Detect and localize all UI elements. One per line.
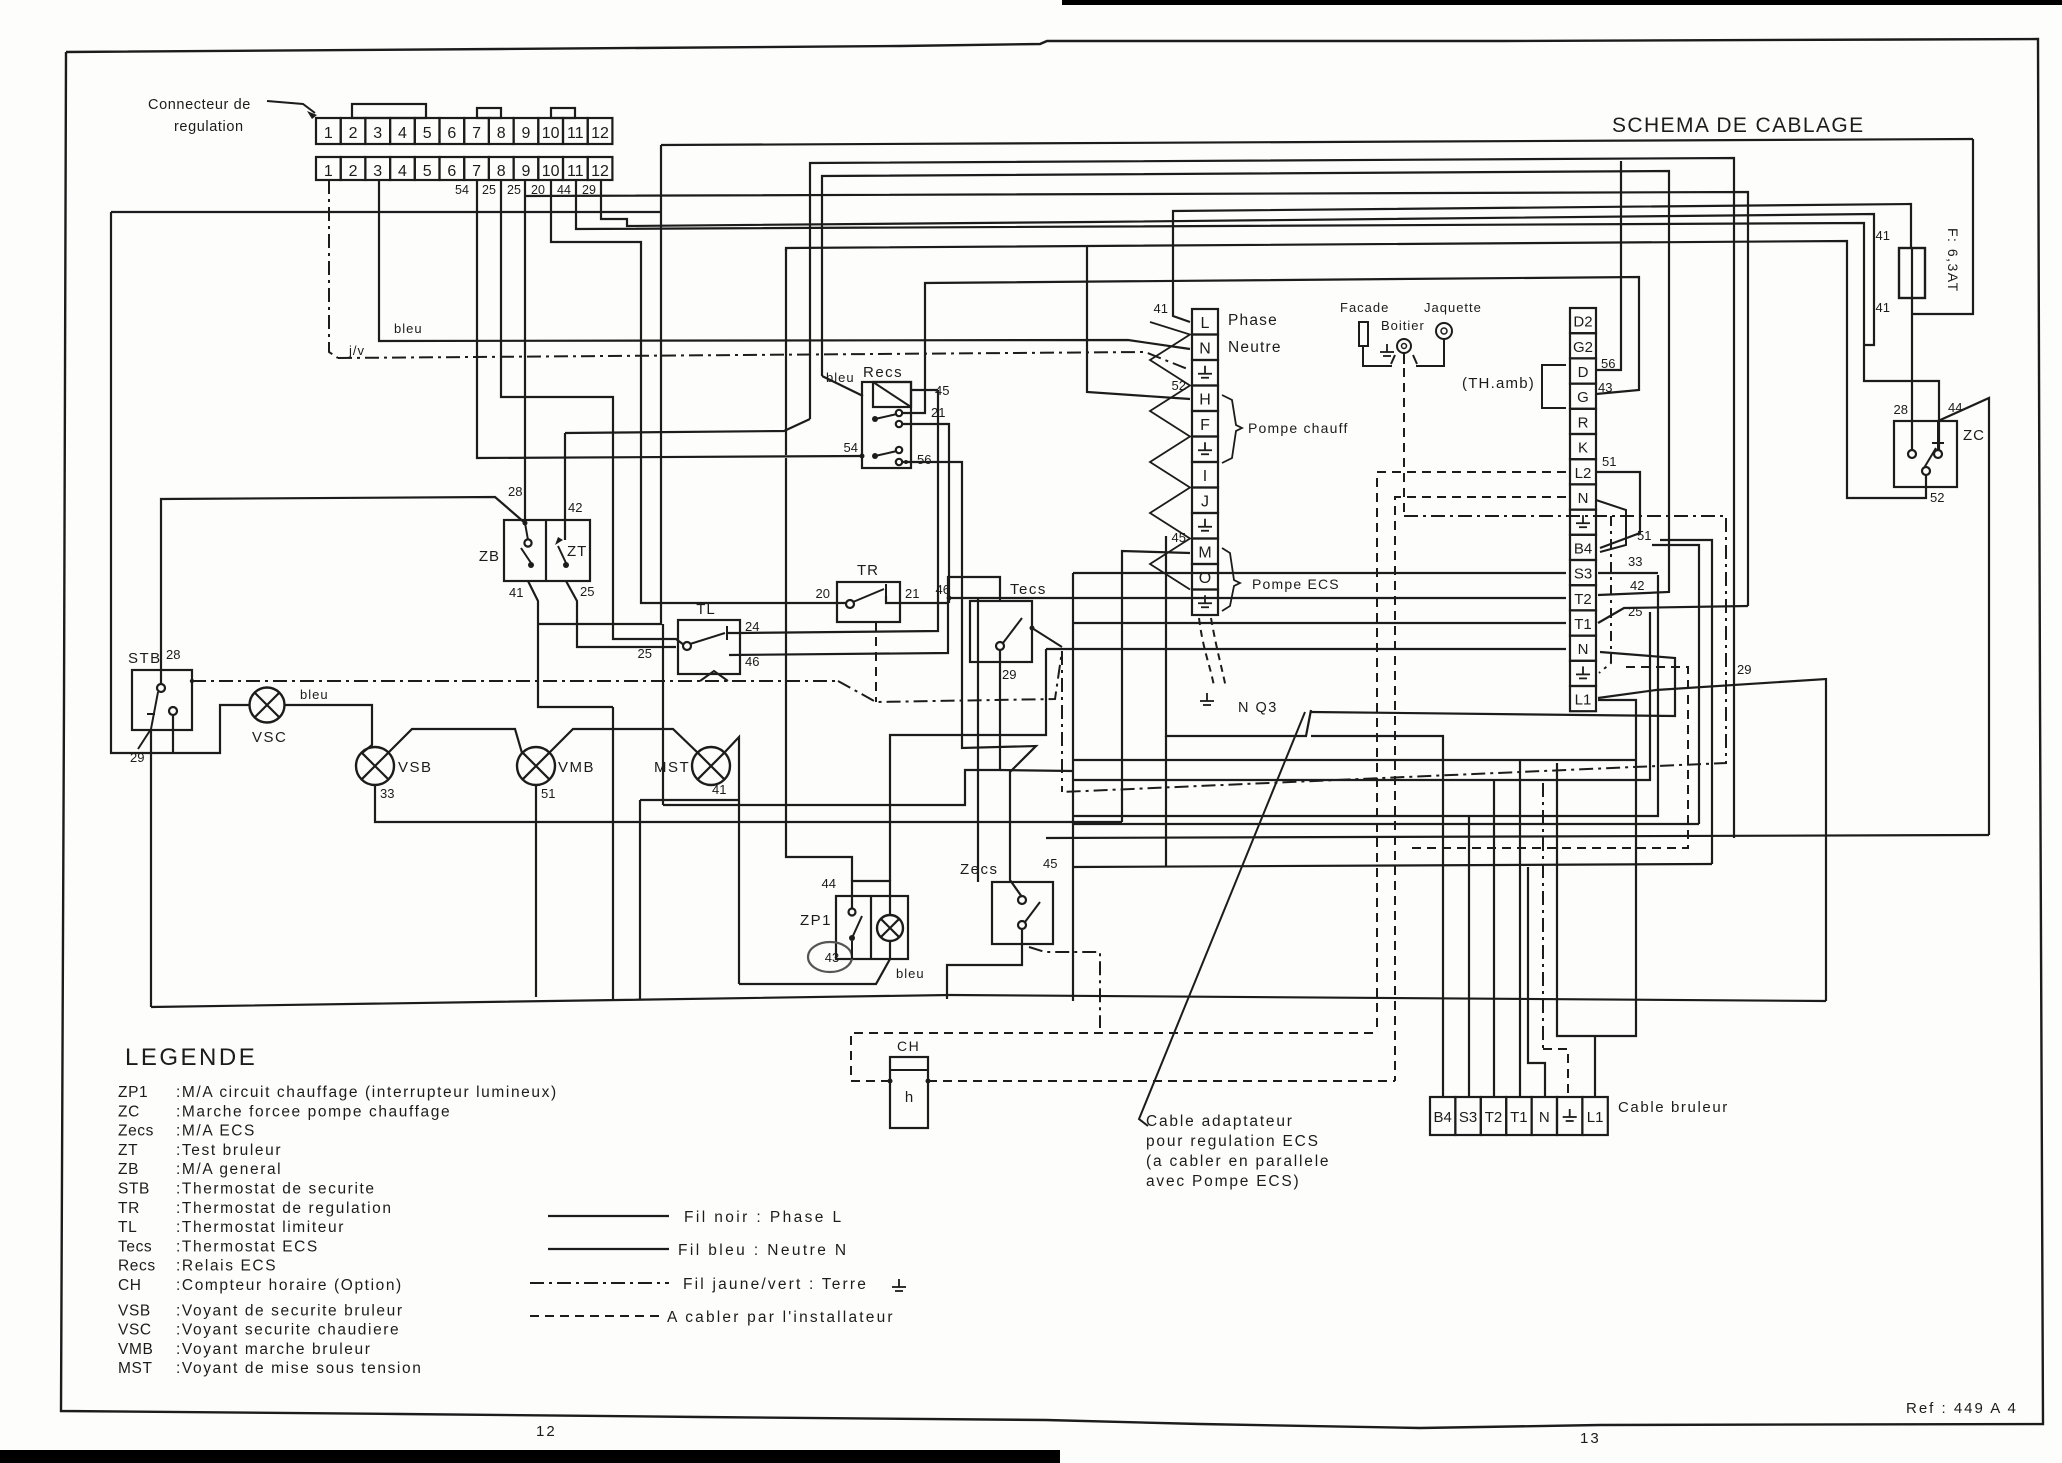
svg-text:j/v: j/v (348, 343, 365, 358)
wire Tecs 29 branch to spine (1000, 770, 1073, 771)
svg-text:T1: T1 (1510, 1109, 1528, 1126)
facade terminal (1359, 322, 1368, 346)
wire T2 long (949, 597, 1566, 599)
svg-text:bleu: bleu (896, 966, 925, 981)
svg-text:M: M (1198, 544, 1211, 561)
wire ZP1 bleu down (739, 941, 890, 984)
lamp VSB (356, 747, 394, 785)
wire Tecs 29 down (663, 650, 1000, 805)
wire bottom bus (151, 995, 1826, 1007)
thermostat Tecs box (970, 601, 1032, 662)
connector cable bruleur (1430, 1097, 1455, 1135)
svg-text:L1: L1 (1587, 1109, 1604, 1126)
leader cable adaptateur (1139, 712, 1305, 1126)
svg-text:N: N (1539, 1109, 1550, 1126)
wire left bus from top (538, 145, 661, 624)
svg-text:5: 5 (423, 125, 432, 142)
terminal strip pompes (1192, 309, 1218, 335)
svg-text:4: 4 (398, 163, 407, 180)
svg-text:Pompe ECS: Pompe ECS (1252, 576, 1340, 592)
svg-text:A cabler par l'installateur: A cabler par l'installateur (667, 1309, 895, 1326)
wire pin8 to TL (501, 180, 684, 645)
Tecs contact (996, 642, 1004, 650)
svg-text:13: 13 (1580, 1430, 1601, 1447)
svg-text:S3: S3 (1574, 566, 1592, 583)
svg-text::Test bruleur: :Test bruleur (176, 1142, 282, 1159)
svg-text:Cable bruleur: Cable bruleur (1618, 1099, 1729, 1116)
TL contact (683, 642, 691, 650)
svg-text:K: K (1578, 440, 1588, 457)
svg-text:Ref : 449 A 4: Ref : 449 A 4 (1906, 1400, 2018, 1417)
brace pompe ECS (1222, 548, 1240, 611)
N Q3 zone box (1166, 536, 1311, 736)
switch Zecs box (992, 882, 1053, 944)
svg-text::Relais ECS: :Relais ECS (176, 1258, 277, 1275)
wire ZC 44 pin (1937, 421, 1939, 450)
svg-text::M/A circuit chauffage (int: :M/A circuit chauffage (interrupteur lum… (176, 1084, 558, 1101)
wire Recs 21 out (903, 424, 949, 603)
legend key fil noir (548, 1215, 669, 1217)
svg-text:ZC: ZC (1963, 427, 1985, 444)
bruleur feed B4 (1311, 736, 1443, 1097)
wire ZB41 bus to Tecs29 (662, 624, 664, 805)
black scan bar bottom-left (0, 1450, 1060, 1463)
wire H 52 loop (785, 249, 787, 455)
svg-text:42: 42 (568, 500, 582, 515)
wire T1 25 line (1598, 606, 1748, 623)
wire long y838 (1046, 835, 1989, 838)
svg-text:D2: D2 (1573, 314, 1592, 331)
thermostat STB box (132, 670, 192, 730)
wire ZC 28 pin (1911, 421, 1913, 450)
svg-text:ZT: ZT (567, 543, 587, 560)
STB earth dash-dot (192, 680, 838, 682)
svg-text:TL: TL (696, 601, 716, 618)
wire ZP1 43 stub (851, 941, 853, 959)
MST right arm 41 (724, 737, 739, 984)
svg-text:12: 12 (591, 125, 609, 142)
earth dash-dot to jaquette loop (1062, 516, 1726, 792)
svg-text:STB: STB (128, 650, 162, 667)
svg-text:21: 21 (905, 586, 919, 601)
wire Recs top loop y163 (810, 158, 1734, 838)
svg-text:ZP1: ZP1 (800, 912, 832, 929)
boitier earth symbol (1386, 344, 1388, 352)
wire T1 long (1073, 622, 1566, 624)
svg-text:h: h (905, 1089, 913, 1106)
svg-text:Facade: Facade (1340, 300, 1389, 315)
legend key a cabler (530, 1315, 660, 1317)
wire ZC 44 riser (1938, 398, 1989, 835)
thermostat TL box (678, 620, 740, 674)
dashed installer lines from L2 and N (1377, 472, 1566, 1033)
svg-text:46: 46 (936, 582, 950, 597)
ground N Q3 (1206, 693, 1208, 701)
installer dashed loop right strip (1410, 667, 1688, 848)
wire G 43 (901, 277, 1639, 413)
svg-text::Thermostat de securite: :Thermostat de securite (176, 1181, 376, 1198)
facade wire (1363, 346, 1392, 366)
wire VMB 51 down (535, 785, 537, 997)
wire ZT 42 from Recs (565, 419, 810, 433)
svg-text:52: 52 (1172, 378, 1186, 393)
bruleur feed N (1528, 867, 1545, 1097)
wire pin11 to right page (576, 180, 1939, 450)
fuse supply wire (809, 162, 811, 164)
wire S3 33 long (1073, 572, 1566, 574)
wire N long (1046, 648, 1566, 650)
boitier earth dashed down (1403, 368, 1405, 516)
svg-text:51: 51 (541, 786, 555, 801)
wire spine x1073 (1072, 573, 1074, 1001)
svg-text:F: 6,3AT: F: 6,3AT (1945, 228, 1961, 293)
wire y824 line (1073, 823, 1699, 825)
Recs contacts (872, 416, 878, 422)
svg-text:Boitier: Boitier (1381, 318, 1425, 333)
terminal strip regulation TH (1570, 308, 1596, 333)
svg-text:MST: MST (654, 759, 690, 776)
row 1 key tabs (352, 104, 426, 118)
wire N row to NQ3 box (1311, 652, 1675, 716)
strip fan-in zigzag (1150, 322, 1190, 590)
svg-text:11: 11 (567, 125, 584, 142)
svg-text::Voyant de securite bruleur: :Voyant de securite bruleur (176, 1302, 404, 1319)
svg-text:G: G (1577, 389, 1589, 406)
wire TL 24 out (727, 390, 938, 633)
CH dashed loop (851, 1033, 1377, 1081)
hour counter CH box (890, 1057, 928, 1128)
svg-text:46: 46 (745, 654, 759, 669)
svg-text:G2: G2 (1573, 339, 1593, 356)
svg-text:29: 29 (1737, 662, 1751, 677)
wire STB lower contact to VSC (172, 715, 174, 753)
wire D 56 (1596, 161, 1621, 370)
wire Zecs bottom to bus (947, 929, 1022, 999)
svg-text::Voyant securite chaudiere: :Voyant securite chaudiere (176, 1322, 400, 1339)
svg-text:(a cabler en parallele: (a cabler en parallele (1146, 1153, 1330, 1170)
svg-text:41: 41 (712, 782, 726, 797)
ZP1 lamp (877, 915, 903, 941)
svg-text:54: 54 (455, 183, 469, 197)
TH amb bracket (1542, 365, 1566, 408)
svg-text:ZC: ZC (118, 1103, 140, 1120)
Zecs contacts (1018, 896, 1026, 904)
wire ZT pin 42 (564, 433, 566, 540)
svg-text:25: 25 (638, 646, 652, 661)
lamp VMB (517, 747, 555, 785)
svg-text:T1: T1 (1574, 616, 1592, 633)
wire ZT 25 down to TL (566, 581, 676, 647)
svg-text:CH: CH (118, 1277, 142, 1294)
svg-text:Neutre: Neutre (1228, 339, 1282, 356)
boitier stud (1397, 339, 1411, 353)
wire pin3 bleu to N (379, 180, 1190, 349)
svg-text:6: 6 (447, 163, 456, 180)
svg-text:bleu: bleu (394, 321, 423, 336)
regulation connector row 1 (316, 118, 341, 144)
svg-text:N: N (1578, 641, 1589, 658)
wire bleu recs loop y176 (822, 171, 1669, 595)
svg-text:1: 1 (324, 163, 333, 180)
wire Recs 54 in (860, 454, 865, 459)
wire pin9 to ZB 28 (524, 180, 526, 523)
svg-text:33: 33 (380, 786, 394, 801)
svg-text:4: 4 (398, 125, 407, 142)
svg-text:Jaquette: Jaquette (1424, 300, 1482, 315)
earth dash-dot riser strip earth (1599, 516, 1611, 673)
wire TL 46 out (729, 577, 1000, 655)
wire pin12 staircase to ZC (1090, 214, 1874, 345)
wire fuse bottom to ZC 28 (1911, 298, 1913, 450)
switch block ZB ZT (504, 520, 590, 581)
svg-text::Voyant marche bruleur: :Voyant marche bruleur (176, 1341, 371, 1358)
wire S3 right stub (1598, 572, 1658, 574)
wire box edge to 867 (1165, 736, 1167, 867)
STB contacts (157, 684, 165, 692)
svg-text:25: 25 (507, 183, 521, 197)
svg-text:D: D (1578, 364, 1589, 381)
svg-text:20: 20 (816, 586, 830, 601)
thermostat TR box (837, 582, 900, 622)
svg-text:42: 42 (1630, 578, 1644, 593)
wire phase top bus to fuse (661, 139, 1973, 145)
svg-text:25: 25 (482, 183, 496, 197)
svg-text:TL: TL (118, 1219, 137, 1236)
svg-text:ZT: ZT (118, 1142, 138, 1159)
svg-text:7: 7 (472, 163, 481, 180)
fuse body F1 (1899, 248, 1925, 298)
ZB contacts (524, 539, 531, 546)
svg-text:12: 12 (591, 163, 609, 180)
brace pompe chauff (1222, 395, 1242, 463)
svg-text:pour regulation ECS: pour regulation ECS (1146, 1133, 1320, 1150)
svg-text:N: N (1578, 490, 1589, 507)
wire STB 28 up to ZB (161, 497, 525, 684)
svg-text:41: 41 (1876, 228, 1890, 243)
svg-text:45: 45 (1172, 530, 1186, 545)
svg-text:10: 10 (542, 125, 560, 142)
switch ZC box (1894, 421, 1957, 487)
TR contact (846, 600, 854, 608)
wire L2 51 loop to B4 (1596, 472, 1640, 548)
svg-text:7: 7 (472, 125, 481, 142)
svg-text:Zecs: Zecs (960, 861, 999, 878)
svg-text:F: F (1200, 417, 1210, 434)
wire ZP1 44 feed (852, 881, 890, 915)
svg-text:44: 44 (1948, 400, 1962, 415)
svg-text:10: 10 (542, 163, 560, 180)
svg-text:Fil bleu : Neutre N: Fil bleu : Neutre N (678, 1242, 849, 1259)
svg-text:L: L (1201, 315, 1210, 332)
svg-text:52: 52 (1930, 490, 1944, 505)
wire x613 down to bus (612, 707, 614, 999)
earth dash-dot riser tecs (1061, 651, 1063, 792)
svg-text::Thermostat limiteur: :Thermostat limiteur (176, 1219, 345, 1236)
svg-text:1: 1 (324, 125, 333, 142)
wire MST 41 to bottom bus (640, 799, 739, 801)
svg-text:2: 2 (349, 125, 358, 142)
wire riser 1699 (1652, 545, 1699, 824)
svg-text:L2: L2 (1575, 465, 1592, 482)
svg-text:R: R (1578, 414, 1589, 431)
wire VSB 33 down (375, 785, 1122, 822)
L1 jog (1557, 763, 1595, 1036)
L1 down chain (1595, 700, 1636, 1036)
svg-text:Fil jaune/vert : Terre: Fil jaune/vert : Terre (683, 1276, 868, 1293)
svg-text:VSB: VSB (118, 1302, 151, 1319)
lamp bus arms VMB-MST (549, 729, 698, 753)
svg-text::Thermostat ECS: :Thermostat ECS (176, 1238, 319, 1255)
svg-text:44: 44 (822, 876, 836, 891)
wire VSC to VSB (285, 705, 372, 753)
svg-text:Fil noir : Phase L: Fil noir : Phase L (684, 1209, 844, 1226)
svg-text:(TH.amb): (TH.amb) (1462, 375, 1535, 392)
svg-text:11: 11 (567, 163, 584, 180)
regulation connector row 2 (316, 157, 341, 180)
wire bleu into coil (822, 376, 863, 396)
svg-text:12: 12 (536, 1423, 557, 1440)
svg-text:28: 28 (166, 647, 180, 662)
lamp bus arms VSB-VMB (388, 729, 522, 753)
svg-text:41: 41 (1154, 301, 1168, 316)
earth dash-dot bus mid (838, 651, 1062, 702)
svg-text:T2: T2 (1485, 1109, 1503, 1126)
svg-text:VMB: VMB (558, 759, 595, 776)
svg-text:N Q3: N Q3 (1238, 700, 1278, 716)
svg-text:I: I (1203, 468, 1207, 485)
svg-text::M/A ECS: :M/A ECS (176, 1123, 256, 1140)
ZP1 contacts (849, 909, 856, 916)
svg-text:8: 8 (497, 125, 506, 142)
nested feeds (1073, 575, 1658, 816)
svg-text:25: 25 (1628, 604, 1642, 619)
svg-text:Zecs: Zecs (118, 1123, 154, 1140)
svg-text:54: 54 (844, 440, 858, 455)
svg-text:ZB: ZB (479, 548, 500, 565)
svg-text:45: 45 (1043, 856, 1057, 871)
jaquette wire (1416, 339, 1444, 366)
svg-text:8: 8 (497, 163, 506, 180)
wire long horizontal y212 (111, 211, 661, 213)
svg-text:avec Pompe ECS): avec Pompe ECS) (1146, 1173, 1301, 1190)
svg-text:Recs: Recs (118, 1258, 156, 1275)
lamp MST (692, 747, 730, 785)
svg-text:VSC: VSC (252, 729, 287, 746)
wire Recs 45 out (911, 389, 938, 391)
legend key fil jaune vert (530, 1282, 669, 1284)
svg-text:51: 51 (1602, 454, 1616, 469)
svg-text:2: 2 (349, 163, 358, 180)
svg-text:H: H (1199, 391, 1211, 408)
svg-text::Marche forcee pompe chauffage: :Marche forcee pompe chauffage (176, 1103, 451, 1120)
svg-text:56: 56 (917, 452, 931, 467)
black scan bar top-right (1062, 0, 2062, 5)
svg-text:VSC: VSC (118, 1322, 152, 1339)
wire STB blade down 29 (138, 729, 151, 749)
svg-text:VSB: VSB (398, 759, 433, 776)
svg-text:VMB: VMB (118, 1341, 153, 1358)
svg-text:N: N (1199, 340, 1211, 357)
svg-text:B4: B4 (1574, 540, 1592, 557)
svg-text::Thermostat de regulation: :Thermostat de regulation (176, 1200, 393, 1217)
wire N diag right strip (1596, 500, 1626, 552)
wire pin9 branch to T2 42 (525, 192, 1748, 606)
bruleur feed earth dash-dot (1542, 783, 1544, 1049)
svg-text:CH: CH (897, 1038, 920, 1054)
ZT contacts (555, 537, 563, 545)
pompe ECS cable dashed (1199, 618, 1214, 686)
svg-text:9: 9 (521, 125, 530, 142)
bruleur feed S3 (1468, 816, 1470, 1097)
bruleur feed T1 (1519, 760, 1521, 1097)
svg-text:Pompe chauff: Pompe chauff (1248, 420, 1349, 436)
wire bundle y246 to ZC 52 (786, 241, 1926, 498)
TR earth dashed (875, 622, 877, 702)
Recs coil (873, 382, 911, 407)
TL earth tent (700, 671, 728, 681)
svg-text:SCHEMA DE CABLAGE: SCHEMA DE CABLAGE (1612, 114, 1865, 137)
wire pin1 j/v earth dash-dot (329, 180, 338, 358)
svg-text:6: 6 (447, 125, 456, 142)
switch ZC contacts (1908, 450, 1916, 458)
svg-text:43: 43 (825, 950, 839, 965)
svg-text:regulation: regulation (174, 119, 244, 135)
wire ZB pin top (525, 523, 528, 540)
svg-text:S3: S3 (1459, 1109, 1477, 1126)
svg-text:Phase: Phase (1228, 312, 1278, 329)
svg-text:J: J (1201, 493, 1209, 510)
svg-text:MST: MST (118, 1360, 153, 1377)
svg-text:bleu: bleu (300, 687, 329, 702)
wire pin10 to TR 20 (551, 180, 846, 603)
fuse F 6,3AT loop box (1912, 139, 1973, 314)
bruleur feed L1 (1594, 1036, 1596, 1097)
wire TR 21 out (886, 596, 949, 603)
svg-text::Voyant de mise sous tension: :Voyant de mise sous tension (176, 1360, 422, 1377)
wire pin7 to Recs 54 (477, 180, 862, 458)
svg-text:Tecs: Tecs (1010, 581, 1047, 598)
svg-text:21: 21 (931, 405, 945, 420)
wire j/v earth bus (338, 352, 1190, 370)
svg-text:TR: TR (857, 562, 879, 579)
svg-text:Tecs: Tecs (118, 1238, 152, 1255)
svg-text:41: 41 (509, 585, 523, 600)
wire pin12 to right page (601, 180, 1090, 226)
switch ZP1 box (836, 896, 908, 959)
wire fuse 41 branch to L (1173, 204, 1911, 322)
svg-text:56: 56 (1601, 356, 1615, 371)
svg-text:bleu: bleu (826, 370, 855, 385)
leader arrow to connector (267, 101, 315, 113)
svg-text:Connecteur de: Connecteur de (148, 97, 251, 113)
legend key fil bleu (548, 1248, 669, 1250)
svg-text:41: 41 (1876, 300, 1890, 315)
svg-text:Recs: Recs (863, 364, 903, 381)
svg-text:B4: B4 (1434, 1109, 1452, 1126)
wire L1 29 line (1598, 679, 1826, 1001)
svg-text:33: 33 (1628, 554, 1642, 569)
svg-text:25: 25 (580, 584, 594, 599)
wire M 45 feed (1122, 551, 1190, 822)
svg-text:28: 28 (1894, 402, 1908, 417)
bruleur feed T2 (1493, 780, 1495, 1097)
svg-text:29: 29 (130, 750, 144, 765)
wire ZP1 up to loop (890, 649, 1046, 881)
svg-text:L1: L1 (1575, 692, 1592, 709)
svg-text::Compteur horaire (Option): :Compteur horaire (Option) (176, 1277, 403, 1294)
lamp VSC (250, 688, 285, 723)
wire x786 down to ZP1 (786, 458, 852, 881)
